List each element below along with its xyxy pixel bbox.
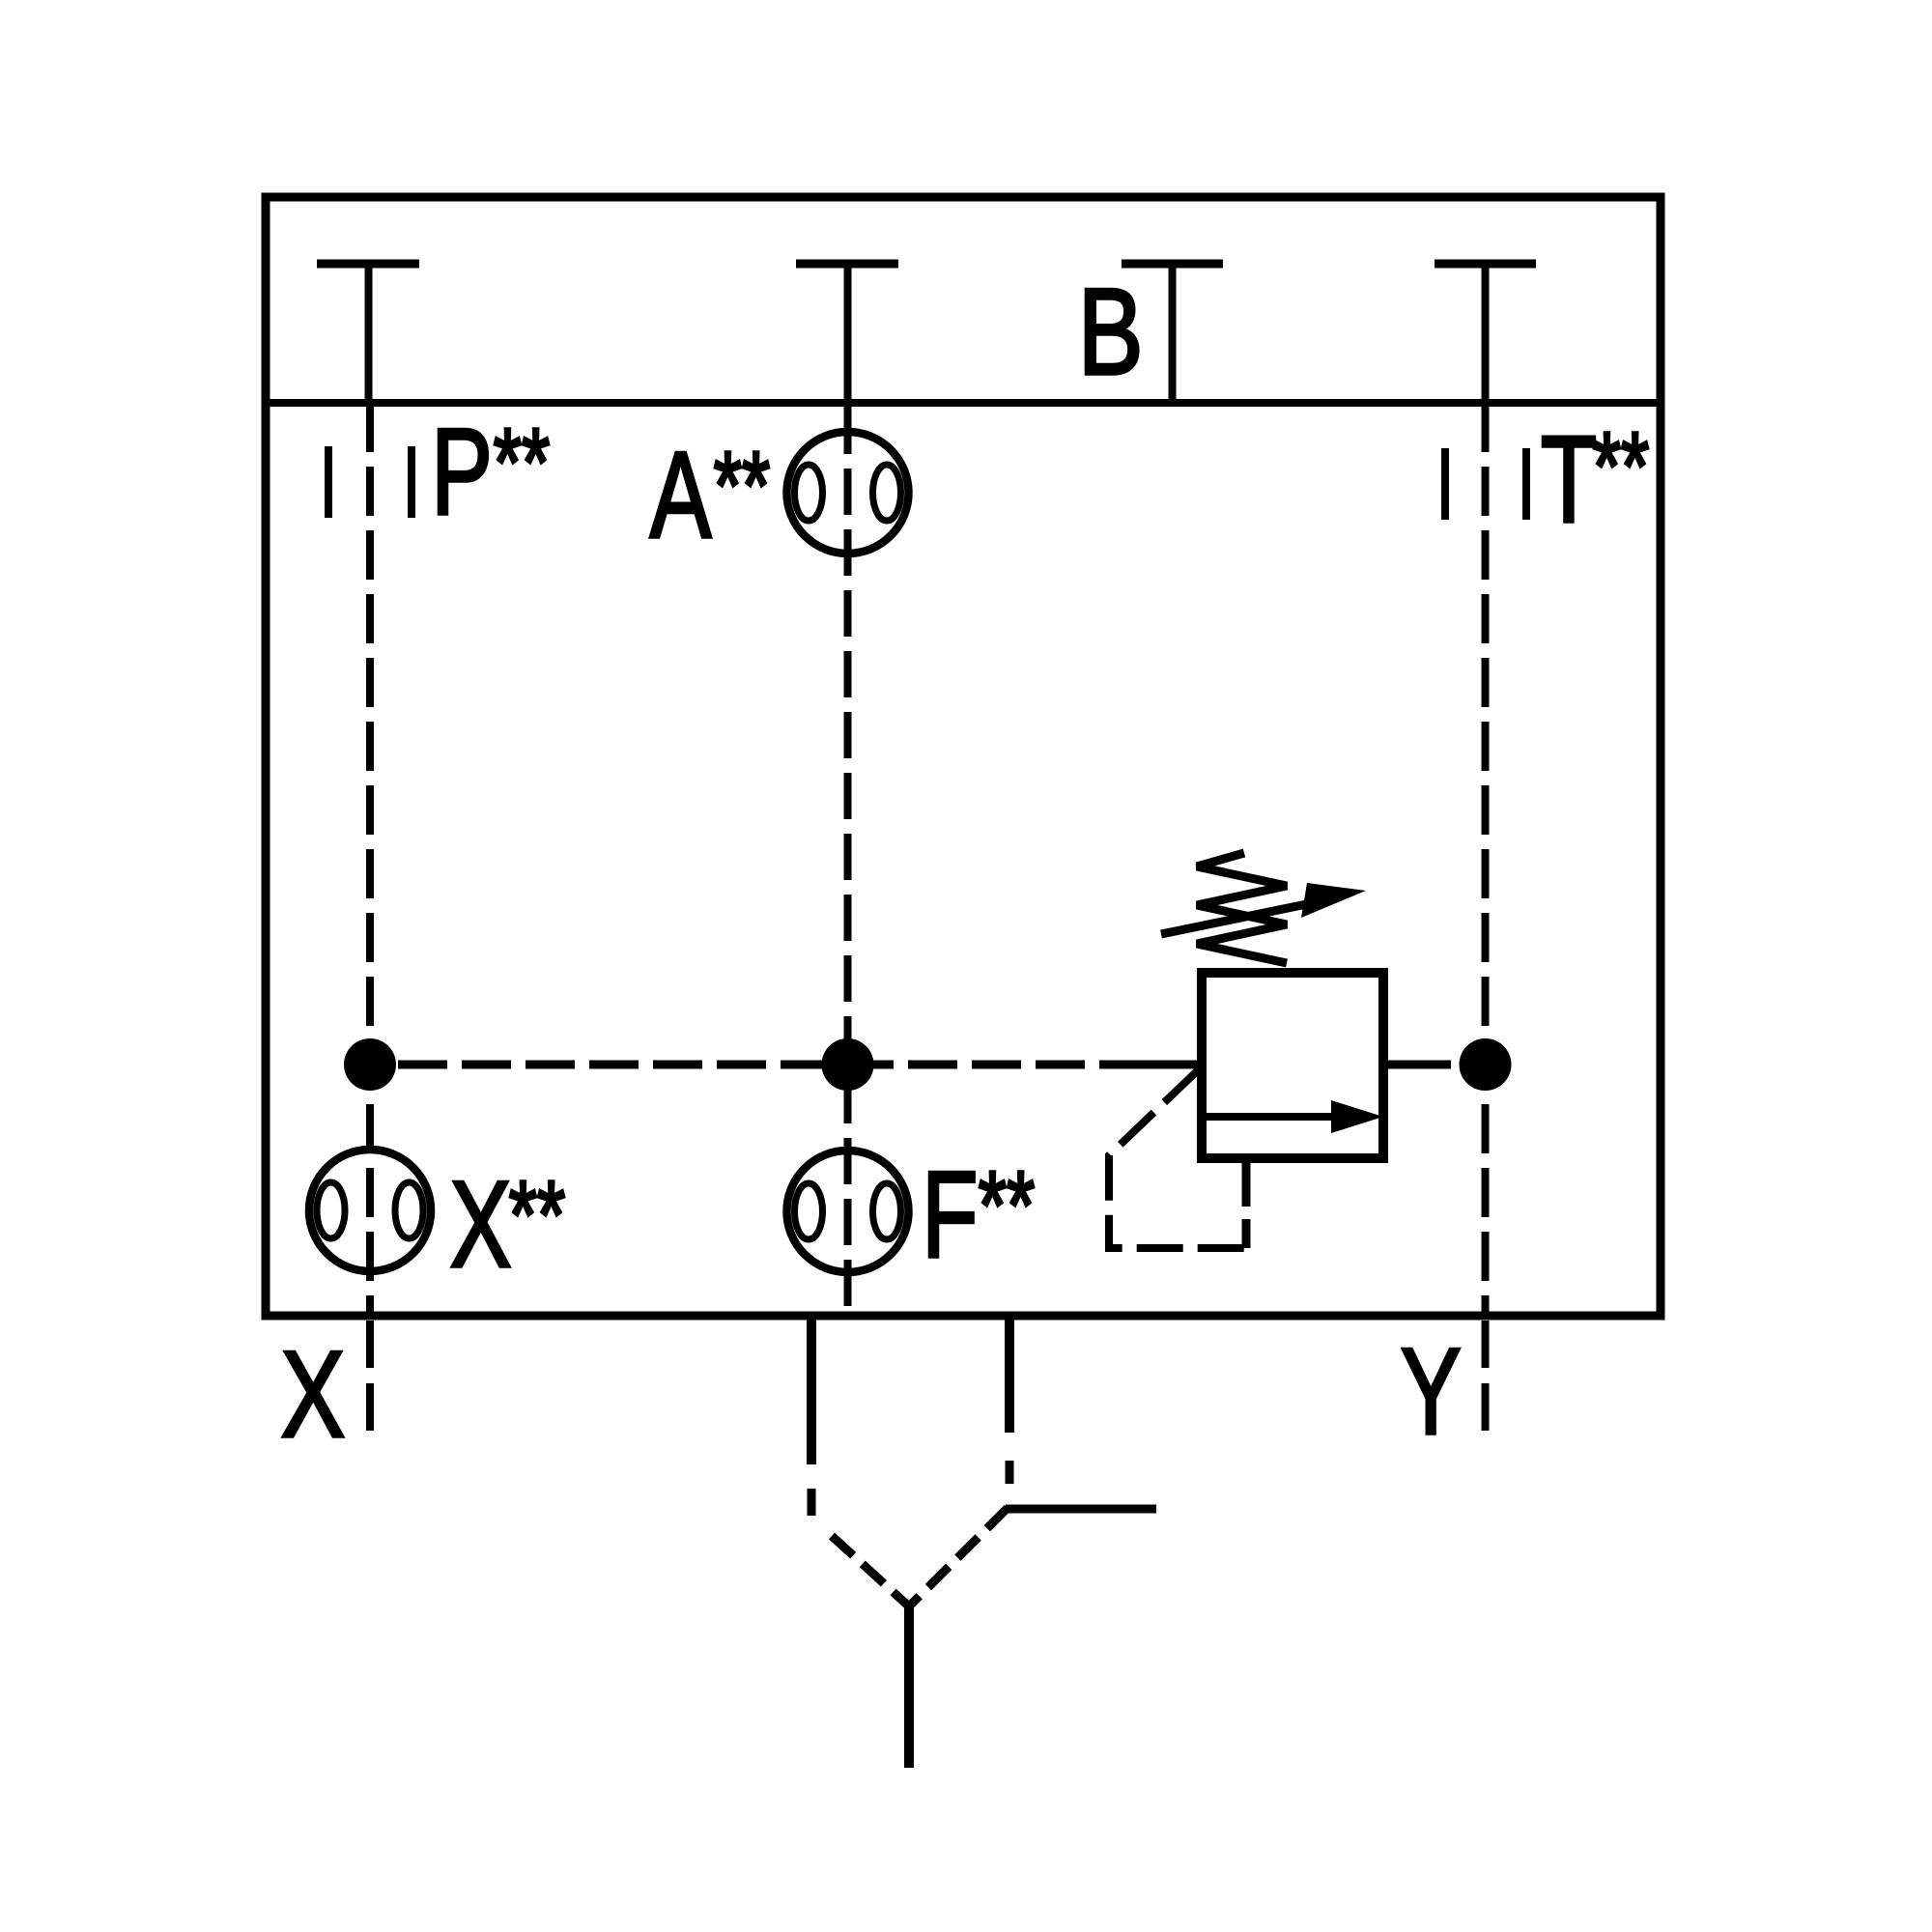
port B plug T-symbol crossbar bbox=[1122, 260, 1223, 269]
svg-text:P: P bbox=[431, 403, 493, 541]
orifice mark right of T line bbox=[1522, 448, 1530, 520]
measuring port F left coupling oval bbox=[795, 1183, 823, 1239]
branch line to further function bbox=[1006, 1505, 1156, 1514]
svg-text:B: B bbox=[1078, 264, 1144, 400]
relief valve flow path arrowhead bbox=[1331, 1100, 1383, 1133]
orifice mark right of P line bbox=[408, 446, 415, 518]
label B bbox=[1078, 264, 1144, 400]
svg-text:Y: Y bbox=[1401, 1322, 1462, 1460]
label Y port bbox=[1401, 1322, 1462, 1460]
svg-text:F: F bbox=[922, 1146, 978, 1284]
orifice mark left of P line bbox=[325, 446, 332, 518]
svg-text:T: T bbox=[1541, 411, 1597, 549]
merged line to cartridge bbox=[904, 1605, 914, 1768]
label T** bbox=[1541, 411, 1597, 549]
label X port bbox=[281, 1326, 345, 1463]
pilot line Y continuation below housing bbox=[1482, 1321, 1490, 1434]
port P plug T-symbol stem bbox=[365, 264, 373, 403]
spring adjustment arrowhead bbox=[1301, 883, 1366, 918]
port T plug T-symbol stem bbox=[1482, 264, 1490, 403]
cartridge connection left dash bbox=[808, 1489, 816, 1516]
label X** bbox=[450, 1155, 512, 1293]
label A** bbox=[650, 426, 712, 564]
measuring port circle A** bbox=[787, 432, 909, 554]
pilot relief valve DB body square bbox=[1202, 973, 1383, 1158]
relief valve drain port stub bbox=[1242, 1163, 1251, 1207]
junction node on X line bbox=[344, 1038, 396, 1091]
svg-text:**: ** bbox=[979, 1151, 1035, 1259]
svg-text:A: A bbox=[650, 426, 712, 564]
junction node on Y line bbox=[1460, 1038, 1512, 1091]
port T plug T-symbol crossbar bbox=[1435, 260, 1536, 269]
svg-text:**: ** bbox=[1593, 412, 1649, 520]
junction node on A line bbox=[822, 1038, 874, 1091]
cartridge connection right dash bbox=[1006, 1461, 1014, 1484]
pilot line P/X vertical dashed bbox=[366, 403, 374, 1316]
relief valve drain port dash bbox=[1242, 1219, 1251, 1248]
relief valve flow path arrow shaft bbox=[1205, 1113, 1338, 1121]
measuring port F right coupling oval bbox=[873, 1183, 901, 1239]
port A stem (solid to measuring circle) bbox=[844, 264, 852, 451]
merge diagonal dashed right bbox=[909, 1508, 1008, 1606]
label F** bbox=[922, 1146, 978, 1284]
port B plug T-symbol stem bbox=[1169, 264, 1177, 403]
svg-text:X: X bbox=[450, 1155, 512, 1293]
label P** bbox=[431, 403, 493, 541]
port A plug T-symbol crossbar bbox=[796, 260, 898, 269]
merge diagonal dashed left bbox=[832, 1536, 909, 1606]
relief valve pilot sensing dashed loop bbox=[1109, 1070, 1246, 1248]
relief valve adjustable spring bbox=[1197, 853, 1287, 963]
measuring port A left coupling oval bbox=[795, 465, 823, 521]
measuring port circle X** bbox=[309, 1150, 431, 1271]
horizontal pilot gallery dashed line bbox=[396, 1061, 1150, 1069]
measuring port A right coupling oval bbox=[873, 465, 901, 521]
housing outline (cover plate body) bbox=[266, 197, 1661, 1316]
svg-text:**: ** bbox=[509, 1160, 565, 1268]
solid lead into relief valve inlet bbox=[1148, 1061, 1202, 1069]
top strip divider line bbox=[266, 399, 1661, 407]
pilot line A/F vertical dashed bbox=[844, 451, 852, 1316]
cartridge A-side connection line left bbox=[807, 1320, 816, 1464]
port P plug T-symbol crossbar bbox=[317, 260, 419, 269]
spring adjustment arrow shaft bbox=[1161, 900, 1325, 934]
svg-text:**: ** bbox=[714, 431, 770, 539]
orifice mark left of T line bbox=[1441, 448, 1449, 520]
pilot line T/Y vertical dashed bbox=[1482, 403, 1490, 1316]
measuring port X right coupling oval bbox=[395, 1182, 423, 1238]
svg-text:X: X bbox=[281, 1326, 345, 1463]
cartridge connection line right bbox=[1005, 1320, 1014, 1433]
pilot line X continuation below housing bbox=[366, 1321, 374, 1434]
measuring port X left coupling oval bbox=[317, 1182, 345, 1238]
svg-text:**: ** bbox=[494, 408, 550, 516]
measuring port circle F** bbox=[787, 1151, 909, 1272]
solid lead from relief valve outlet bbox=[1384, 1061, 1451, 1069]
